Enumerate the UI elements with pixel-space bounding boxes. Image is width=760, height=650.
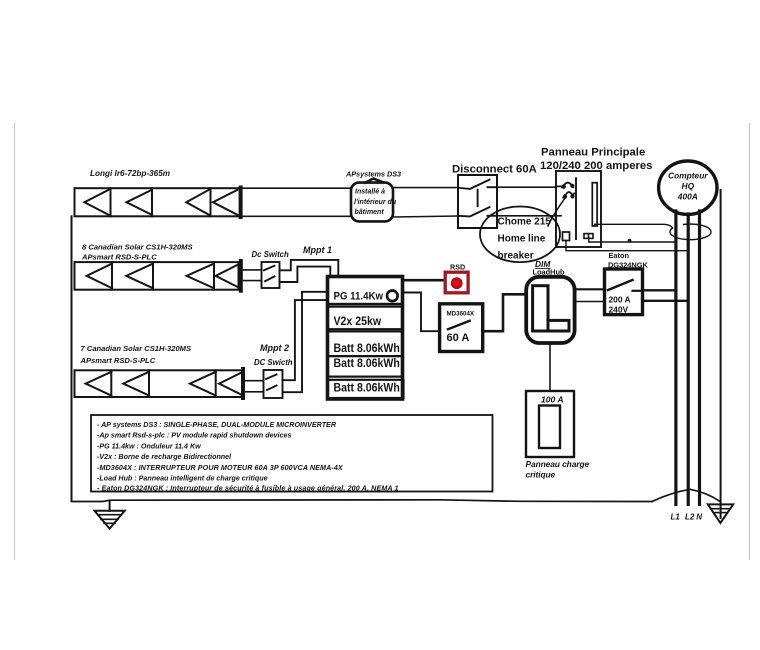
svg-text:V2x 25kw: V2x 25kw xyxy=(334,315,382,328)
wire: disconnect to main panel (bottom) xyxy=(497,215,561,217)
svg-text:Mppt 2: Mppt 2 xyxy=(260,343,289,353)
inverter stack outer box xyxy=(328,277,403,400)
svg-text:60 A: 60 A xyxy=(447,332,470,344)
wire: DC switch 2 top pin to inverter left xyxy=(283,300,327,380)
svg-text:APsmart RSD-S-PLC: APsmart RSD-S-PLC xyxy=(81,253,157,262)
bus bar (vertical) in main panel xyxy=(575,178,577,239)
wire: bottom bus hop over L1 L2 N to ground xyxy=(652,489,720,501)
svg-text:Disconnect 60A: Disconnect 60A xyxy=(452,164,537,176)
wire: string3 to DC switch 2 (top) xyxy=(245,380,264,382)
svg-text:PG 11.4Kw: PG 11.4Kw xyxy=(334,290,384,303)
wire: main breaker to meter loop xyxy=(595,224,673,228)
svg-text:-V2x : Borne de recharge Bidir: -V2x : Borne de recharge Bidirectionnel xyxy=(97,453,232,461)
wire: string1 band to callout (top) xyxy=(242,187,352,189)
DC switch 1 xyxy=(262,262,280,288)
wire: string3 to DC switch 2 (bottom) xyxy=(245,391,264,393)
svg-text:Home line: Home line xyxy=(498,234,546,245)
svg-text:L1: L1 xyxy=(671,512,681,521)
wire: Eaton to L1 xyxy=(643,289,676,291)
wire: disconnect to main panel (top) xyxy=(497,186,556,188)
pointer line from Chome ellipse to breaker xyxy=(548,197,566,226)
meter loop oval xyxy=(670,224,711,240)
safety switch Eaton DG324NGK xyxy=(605,269,643,315)
svg-text:- AP systems DS3 : SINGLE-PHAS: - AP systems DS3 : SINGLE-PHASE, DUAL-MO… xyxy=(97,421,337,429)
svg-text:7 Canadian Solar CS1H-320MS: 7 Canadian Solar CS1H-320MS xyxy=(81,344,192,353)
wire: N drop from meter xyxy=(698,211,701,504)
svg-text:-PG 11.4kw : Onduleur 11.4 Kw: -PG 11.4kw : Onduleur 11.4 Kw xyxy=(97,442,201,450)
svg-text:MD3604X: MD3604X xyxy=(447,311,475,318)
wire: LoadHub down to critical panel xyxy=(549,343,551,391)
LoadHub panel xyxy=(526,277,574,343)
ground (right) xyxy=(708,504,733,523)
svg-text:critique: critique xyxy=(526,470,556,480)
wire: LoadHub to Eaton (bottom) xyxy=(575,301,605,303)
battery 3 row: Batt 8.06kWh xyxy=(328,380,404,398)
wire: callout to disconnect (bottom) xyxy=(393,216,458,217)
branch breaker square in main panel xyxy=(563,232,570,241)
DC switch 2 xyxy=(264,370,283,398)
svg-text:Longi lr6-72bp-365m: Longi lr6-72bp-365m xyxy=(90,169,170,178)
svg-text:L2: L2 xyxy=(685,512,695,521)
svg-text:APsmart RSD-S-PLC: APsmart RSD-S-PLC xyxy=(80,356,156,365)
svg-text:400A: 400A xyxy=(677,192,698,202)
svg-text:Compteur: Compteur xyxy=(668,171,708,181)
wire: string1 band to callout (bottom) xyxy=(242,215,352,217)
svg-text:bâtiment: bâtiment xyxy=(355,209,385,216)
motor switch MD3604X xyxy=(440,304,483,352)
svg-text:8 Canadian Solar CS1H-320MS: 8 Canadian Solar CS1H-320MS xyxy=(82,243,193,252)
legend box xyxy=(91,415,493,493)
wire: DC switch 1 top pin to inverter top xyxy=(280,260,339,276)
main panel box: Panneau Principale xyxy=(556,171,601,247)
svg-text:DC Swicth: DC Swicth xyxy=(254,358,293,367)
svg-text:-Load Hub : Panneau intelligen: -Load Hub : Panneau intelligent de charg… xyxy=(97,475,268,483)
svg-text:RSD: RSD xyxy=(450,263,465,272)
svg-text:Installé à: Installé à xyxy=(355,189,385,196)
wire: bottom ground bus xyxy=(72,500,653,502)
wire: DC switch 1 bottom pin to inverter top xyxy=(280,267,331,282)
EV charger V2x 25kw row xyxy=(328,307,403,330)
wire: LoadHub to Eaton (top) xyxy=(575,288,605,290)
svg-text:Dc Switch: Dc Switch xyxy=(252,250,289,259)
PV string 1 (Longi) array xyxy=(75,188,241,218)
wire: DC switch 2 bottom pin to inverter left xyxy=(283,292,327,392)
wire: left enclosure vertical xyxy=(71,216,73,501)
breaker 2 in main panel xyxy=(563,192,575,199)
svg-text:Chome 215: Chome 215 xyxy=(498,217,552,228)
battery 2 row: Batt 8.06kWh xyxy=(328,356,403,377)
svg-text:l'intérieur du: l'intérieur du xyxy=(354,199,397,206)
callout: Installé à l'intérieur du bâtiment xyxy=(351,179,397,222)
wire: inverter to RSD xyxy=(404,279,446,282)
ground (left) xyxy=(95,501,125,529)
svg-text:240V: 240V xyxy=(609,305,629,315)
svg-text:200 A: 200 A xyxy=(609,295,631,305)
wire: string2 to DC switch 1 (bottom) xyxy=(243,280,262,282)
wire: MD3604X to LoadHub xyxy=(483,294,527,331)
junction dot on wire xyxy=(628,239,632,243)
inverter PG 11.4Kw row xyxy=(328,277,403,305)
svg-text:Eaton: Eaton xyxy=(609,251,630,260)
svg-text:Panneau charge: Panneau charge xyxy=(526,459,590,469)
meter: Compteur HQ 400A xyxy=(659,161,717,214)
wire: square breaker down and right to L2 xyxy=(566,241,688,251)
svg-text:Batt 8.06kWh: Batt 8.06kWh xyxy=(334,342,400,355)
breaker 1 in main panel xyxy=(556,183,574,189)
branch breaker small rect in main panel xyxy=(584,234,593,239)
wire: inverter to MD3604X (via right bend) xyxy=(404,293,440,332)
svg-text:Batt 8.06kWh: Batt 8.06kWh xyxy=(334,382,400,395)
svg-text:Panneau Principale: Panneau Principale xyxy=(541,147,645,159)
disconnect switch: Disconnect 60A xyxy=(458,175,497,228)
battery 1 row: Batt 8.06kWh xyxy=(328,331,403,356)
svg-text:Batt 8.06kWh: Batt 8.06kWh xyxy=(334,357,400,370)
wire: small rect down and right to L1 xyxy=(589,238,676,242)
svg-text:Mppt 1: Mppt 1 xyxy=(303,245,332,255)
RSD button xyxy=(445,272,468,293)
wire: ground conductor drop (right) xyxy=(720,190,722,518)
wire: L1 drop from meter xyxy=(674,211,677,504)
wire: L2 drop from meter xyxy=(687,214,690,504)
wire: Eaton to L2 xyxy=(643,300,689,302)
wire: callout to disconnect (top) xyxy=(393,187,458,189)
svg-text:-MD3604X : INTERRUPTEUR POUR M: -MD3604X : INTERRUPTEUR POUR MOTEUR 60A … xyxy=(97,464,344,472)
svg-text:breaker: breaker xyxy=(498,251,534,262)
wire: string2 to DC switch 1 (top) xyxy=(243,269,262,271)
svg-text:- Eaton DG324NGK : Interrupteu: - Eaton DG324NGK : Interrupteur de sécur… xyxy=(97,485,399,493)
svg-text:100 A: 100 A xyxy=(541,395,564,405)
callout ellipse: Chome 215 Home line breaker xyxy=(480,207,560,263)
svg-text:N: N xyxy=(696,512,702,521)
svg-text:-Ap smart Rsd-s-plc : PV modul: -Ap smart Rsd-s-plc : PV module rapid sh… xyxy=(97,432,291,440)
main breaker rectangle in main panel xyxy=(592,183,597,226)
PV string 2 (8 Canadian Solar) array xyxy=(75,261,241,291)
critical load panel 100 A xyxy=(526,391,574,457)
svg-text:HQ: HQ xyxy=(682,181,695,191)
PV string 3 (7 Canadian Solar) array xyxy=(75,369,244,398)
